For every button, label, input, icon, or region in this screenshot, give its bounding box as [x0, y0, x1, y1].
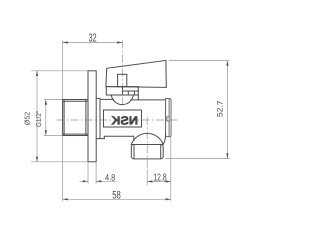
dim 32 extension left	[62, 40, 64, 99]
packing nut	[106, 87, 138, 100]
dim 12.8 arrows	[147, 180, 152, 182]
dim 4.8 arrows	[83, 180, 88, 182]
dim 52.7 arrows	[226, 61, 228, 66]
dim 58 extension right	[170, 137, 172, 202]
NSK label plate	[104, 110, 142, 127]
centerline bottom outlet axis	[146, 117, 148, 169]
dim 52.7 line	[226, 61, 228, 159]
dim 4.8 line	[80, 180, 89, 182]
svg-text:12.8: 12.8	[153, 173, 167, 184]
bonnet dome intersection arc	[111, 95, 133, 105]
port face slot detail	[167, 117, 169, 121]
dim 58 arrows	[63, 198, 68, 200]
dim 58 extension left	[62, 136, 64, 202]
dim G1/2 line	[45, 100, 47, 136]
svg-text:4.8: 4.8	[105, 172, 115, 182]
centerline horizontal axis	[57, 119, 178, 121]
svg-text:58: 58	[112, 190, 121, 202]
valve body neck	[96, 98, 104, 138]
svg-text:Ø52: Ø52	[24, 112, 32, 125]
lever handle	[106, 60, 166, 87]
dim G1/2 extension lines	[44, 99, 62, 101]
outlet port right	[166, 98, 171, 137]
svg-text:NSK: NSK	[111, 114, 138, 128]
body to nut fillet	[163, 134, 166, 145]
valve body outline	[100, 99, 166, 140]
dim dia52 arrows	[36, 71, 38, 76]
dim 32 arrows	[63, 41, 68, 43]
dim 4.8 extension lines	[87, 163, 89, 184]
handle stem	[118, 74, 127, 86]
dim 58 line	[63, 198, 171, 200]
centerline stem vertical axis	[121, 40, 123, 105]
dim dia52 line	[36, 71, 38, 162]
dim G1/2 arrows	[45, 100, 47, 105]
dim 12.8 line	[147, 181, 171, 183]
svg-text:G1/2″: G1/2″	[35, 110, 43, 127]
outlet dome cap arc	[131, 133, 163, 144]
dim 52.7 extension bottom	[166, 158, 230, 160]
compression nut bottom outlet	[131, 145, 163, 159]
dim 32 line	[63, 42, 123, 44]
flange escutcheon plate	[88, 71, 96, 162]
dim dia52 extension lines	[31, 70, 88, 72]
thread inlet G1/2 male end	[63, 100, 88, 136]
svg-text:32: 32	[89, 33, 97, 45]
dim 52.7 extension top	[169, 60, 230, 62]
svg-text:52.7: 52.7	[215, 100, 224, 117]
